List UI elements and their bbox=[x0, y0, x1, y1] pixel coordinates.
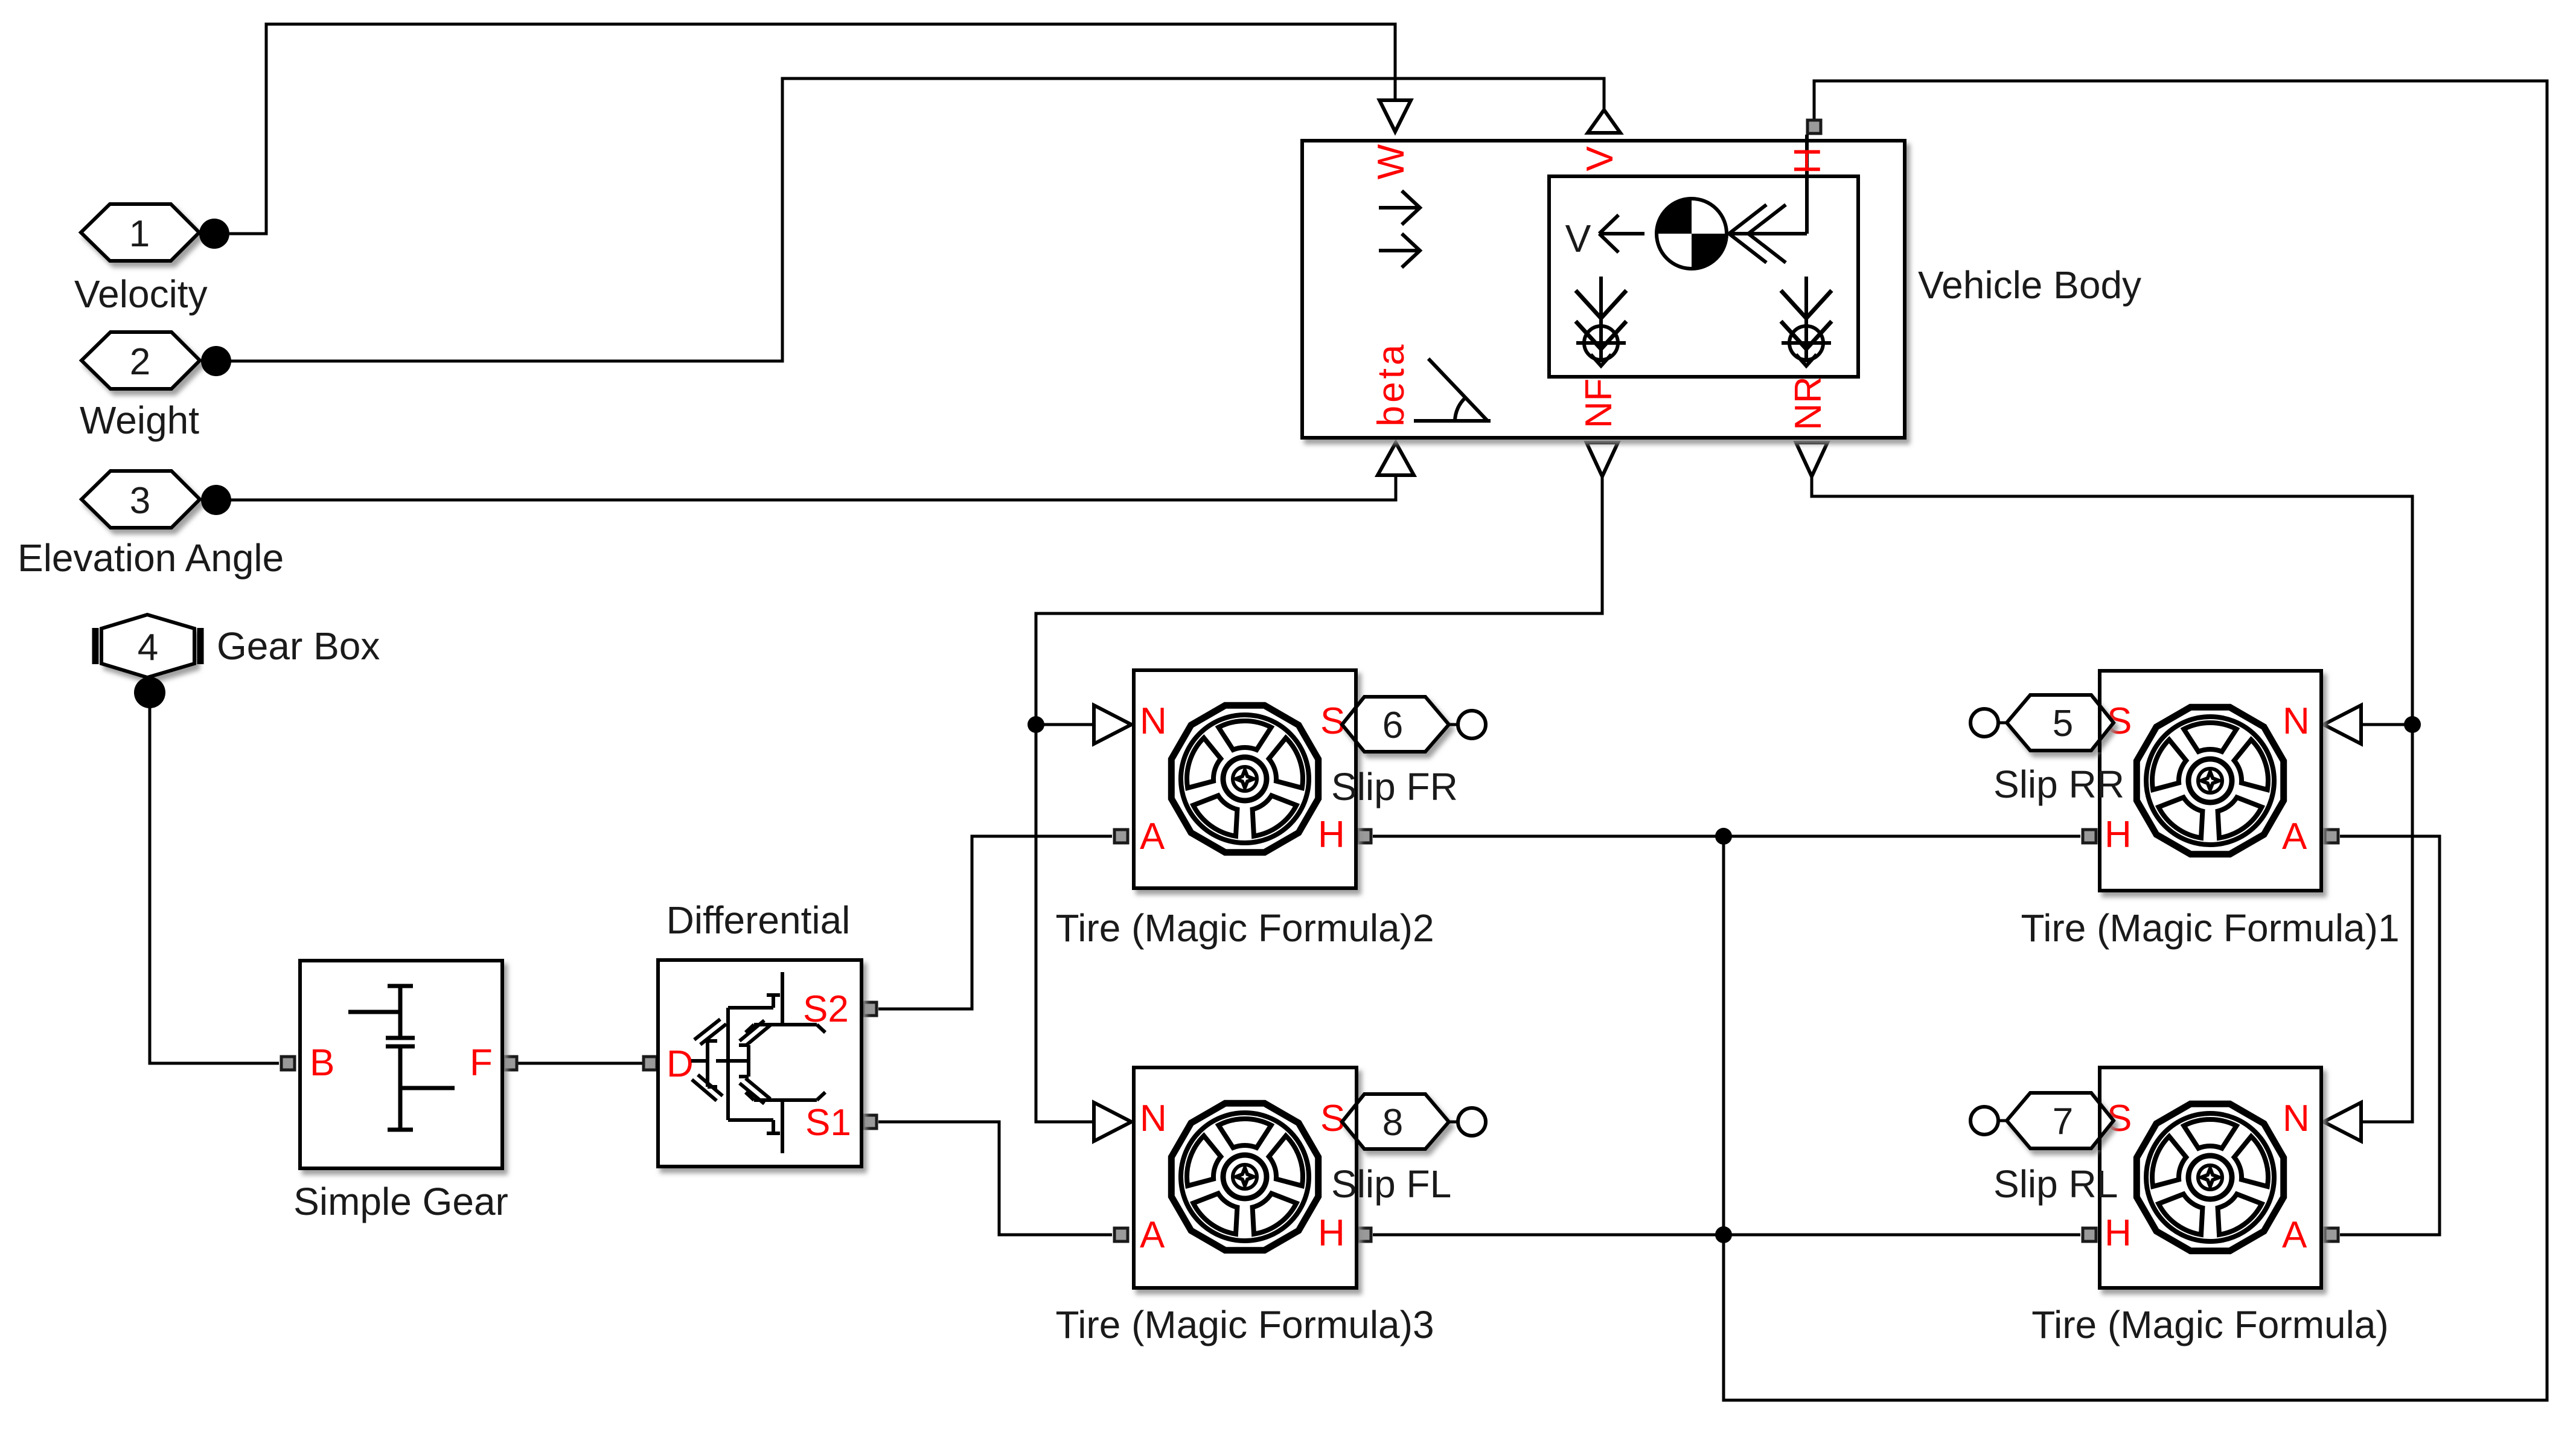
block Tire (Magic Formula)1 rear right bbox=[2100, 671, 2321, 891]
wire Tire FL H to Tire RL H bbox=[1373, 1234, 2080, 1237]
svg-text:Slip FR: Slip FR bbox=[1331, 765, 1458, 808]
block Differential bbox=[658, 960, 861, 1167]
svg-text:Weight: Weight bbox=[80, 399, 199, 442]
port 7 stub and terminator circle bbox=[1970, 1107, 2007, 1135]
svg-text:F: F bbox=[470, 1042, 493, 1084]
wire Simple Gear F to Differential D bbox=[518, 1062, 642, 1065]
port square Tire RL A bbox=[2325, 1228, 2338, 1241]
svg-text:H: H bbox=[1318, 1212, 1345, 1254]
svg-text:S1: S1 bbox=[805, 1102, 851, 1144]
svg-text:NF: NF bbox=[1578, 379, 1620, 429]
port 4 connection dot bbox=[134, 677, 165, 708]
svg-text:A: A bbox=[2282, 816, 2307, 857]
wire Vehicle Body NR to Tire RR and Tire RL N ports bbox=[1812, 476, 2412, 1122]
inport 1 hexagon bbox=[81, 204, 199, 261]
port square Differential D bbox=[644, 1057, 657, 1070]
wire port2 to Vehicle Body V port bbox=[231, 78, 1604, 361]
svg-text:V: V bbox=[1565, 217, 1591, 260]
port square Tire RL H bbox=[2083, 1228, 2096, 1241]
svg-text:2: 2 bbox=[130, 341, 150, 383]
svg-text:7: 7 bbox=[2053, 1101, 2073, 1142]
svg-text:3: 3 bbox=[130, 480, 150, 522]
block Tire (Magic Formula)3 front left bbox=[1134, 1067, 1357, 1288]
junction NF branch bbox=[1028, 716, 1044, 733]
Simple Gear icon bbox=[348, 986, 455, 1130]
Vehicle Body velocity annotation V with left arrow bbox=[1565, 215, 1644, 260]
Tire RR wheel icon bbox=[2137, 707, 2283, 854]
input arrow Tire FR N port bbox=[1094, 705, 1131, 744]
port square Tire FR H bbox=[1358, 830, 1371, 843]
svg-text:Elevation Angle: Elevation Angle bbox=[18, 536, 284, 580]
wire branch NR junction to Tire RR N bbox=[2361, 723, 2412, 726]
port 5 stub and terminator circle bbox=[1970, 709, 2007, 737]
port square Vehicle Body H bbox=[1807, 120, 1821, 133]
svg-text:A: A bbox=[2282, 1214, 2307, 1256]
port square Simple Gear F bbox=[503, 1057, 517, 1070]
svg-text:Tire (Magic Formula): Tire (Magic Formula) bbox=[2031, 1303, 2388, 1346]
svg-text:H: H bbox=[2105, 814, 2132, 856]
svg-text:H: H bbox=[2105, 1212, 2132, 1254]
svg-text:W: W bbox=[1370, 144, 1412, 179]
Vehicle Body incline angle icon bbox=[1414, 359, 1491, 421]
Tire FL right edge over hexagon bbox=[1355, 1092, 1358, 1151]
svg-text:N: N bbox=[2283, 700, 2310, 742]
port 3 connection dot bbox=[201, 485, 231, 515]
block Vehicle Body bbox=[1302, 141, 1905, 438]
svg-text:Tire (Magic Formula)2: Tire (Magic Formula)2 bbox=[1055, 906, 1434, 950]
block Simple Gear bbox=[300, 961, 502, 1168]
svg-text:Tire (Magic Formula)3: Tire (Magic Formula)3 bbox=[1055, 1303, 1434, 1346]
port square Tire FL H bbox=[1358, 1228, 1371, 1241]
svg-text:N: N bbox=[1140, 1098, 1167, 1139]
svg-text:Slip RR: Slip RR bbox=[1993, 763, 2124, 806]
output arrow Vehicle Body NR port bbox=[1796, 443, 1827, 476]
svg-text:N: N bbox=[2283, 1098, 2310, 1139]
svg-text:Slip RL: Slip RL bbox=[1993, 1162, 2118, 1206]
Vehicle Body center of gravity symbol bbox=[1657, 199, 1727, 269]
Tire FR right edge over hexagon bbox=[1354, 695, 1358, 754]
input arrow Tire RR N port bbox=[2324, 705, 2361, 744]
junction NR branch bbox=[2404, 716, 2421, 733]
svg-text:Slip FL: Slip FL bbox=[1331, 1162, 1451, 1206]
svg-text:V: V bbox=[1579, 146, 1621, 171]
svg-text:Vehicle Body: Vehicle Body bbox=[1918, 263, 2141, 307]
svg-text:5: 5 bbox=[2053, 703, 2073, 744]
outport 8 hexagon bbox=[1342, 1094, 1449, 1149]
inport 3 hexagon bbox=[81, 471, 200, 528]
wire Differential S1 to Tire FL port A bbox=[878, 1122, 1112, 1235]
block Tire (Magic Formula)2 front right bbox=[1134, 670, 1356, 888]
svg-text:H: H bbox=[1318, 814, 1345, 856]
svg-text:Differential: Differential bbox=[666, 898, 851, 942]
port 1 connection dot bbox=[199, 219, 229, 249]
svg-text:D: D bbox=[666, 1043, 694, 1085]
inport 2 hexagon bbox=[81, 332, 200, 389]
Vehicle Body double chevron and link to H port bbox=[1729, 135, 1807, 263]
svg-text:N: N bbox=[1140, 700, 1167, 742]
output arrow Vehicle Body V port bbox=[1588, 110, 1620, 133]
svg-text:8: 8 bbox=[1382, 1102, 1403, 1144]
Tire RL left edge over hexagon bbox=[2098, 1091, 2101, 1150]
port square Tire RR H bbox=[2083, 830, 2096, 843]
svg-text:6: 6 bbox=[1382, 705, 1403, 746]
junction H bus upper bbox=[1715, 828, 1732, 845]
Tire RR left edge over hexagon bbox=[2098, 693, 2101, 752]
port square Differential S1 bbox=[863, 1115, 877, 1128]
port square Tire RR A bbox=[2325, 830, 2338, 843]
wire Differential S2 to Tire FR port A bbox=[878, 836, 1112, 1009]
input arrow Vehicle Body W port bbox=[1379, 100, 1411, 132]
Tire RL wheel icon bbox=[2137, 1104, 2283, 1250]
svg-text:H: H bbox=[1787, 147, 1829, 174]
svg-text:Tire (Magic Formula)1: Tire (Magic Formula)1 bbox=[2021, 906, 2399, 950]
port 6 stub and terminator circle bbox=[1449, 711, 1486, 738]
svg-text:4: 4 bbox=[138, 627, 158, 668]
junction H bus lower bbox=[1715, 1226, 1732, 1243]
svg-text:beta: beta bbox=[1370, 342, 1412, 427]
svg-text:A: A bbox=[1140, 1214, 1165, 1256]
block Tire (Magic Formula) rear left bbox=[2100, 1067, 2321, 1288]
Vehicle Body rear axle weight arrow bbox=[1781, 277, 1832, 366]
port square Tire FR A bbox=[1114, 830, 1128, 843]
outport 6 hexagon bbox=[1342, 697, 1449, 752]
Vehicle Body front axle weight arrow bbox=[1576, 277, 1626, 366]
wire branch NF junction to Tire FR N bbox=[1036, 723, 1094, 726]
wire Tire RR A to Tire RL A bbox=[2340, 836, 2440, 1235]
svg-text:S: S bbox=[1320, 1098, 1345, 1139]
svg-text:A: A bbox=[1140, 816, 1165, 857]
wire Vehicle Body H loop to tire H bus bbox=[1724, 81, 2547, 1400]
outport 5 hexagon bbox=[2007, 695, 2114, 751]
svg-text:1: 1 bbox=[129, 213, 150, 255]
Differential bevel gear icon bbox=[691, 972, 825, 1153]
port square Simple Gear B bbox=[281, 1057, 295, 1070]
svg-text:B: B bbox=[310, 1042, 334, 1084]
input arrow Tire FL N port bbox=[1094, 1103, 1131, 1141]
svg-text:S: S bbox=[1320, 700, 1345, 742]
Tire FL wheel icon bbox=[1171, 1103, 1318, 1250]
outport 7 hexagon bbox=[2007, 1093, 2114, 1148]
port 8 stub and terminator circle bbox=[1449, 1108, 1486, 1136]
Vehicle Body wind arrows icon bbox=[1379, 191, 1420, 267]
output arrow Vehicle Body NF port bbox=[1587, 443, 1618, 476]
input arrow Tire RL N port bbox=[2324, 1103, 2361, 1141]
port square Tire FL A bbox=[1114, 1228, 1128, 1241]
svg-text:Velocity: Velocity bbox=[74, 272, 208, 316]
svg-text:Gear Box: Gear Box bbox=[217, 624, 380, 668]
input arrow Vehicle Body beta port bbox=[1378, 443, 1414, 475]
port 2 connection dot bbox=[201, 346, 231, 376]
svg-text:NR: NR bbox=[1788, 376, 1829, 431]
Tire FR wheel icon bbox=[1171, 705, 1318, 852]
wire port1 to Vehicle Body W port bbox=[229, 24, 1395, 234]
wire Vehicle Body NF to Tire FR and Tire FL N ports bbox=[1036, 476, 1602, 1122]
port square Differential S2 bbox=[863, 1002, 877, 1016]
connection port 4 hexagon bbox=[95, 615, 200, 677]
wire port3 to Vehicle Body beta port bbox=[231, 476, 1396, 500]
wire Tire FR H to Tire RR H bbox=[1373, 835, 2080, 838]
svg-text:Simple Gear: Simple Gear bbox=[293, 1180, 508, 1223]
wire port4 to Simple Gear B port bbox=[150, 706, 279, 1063]
